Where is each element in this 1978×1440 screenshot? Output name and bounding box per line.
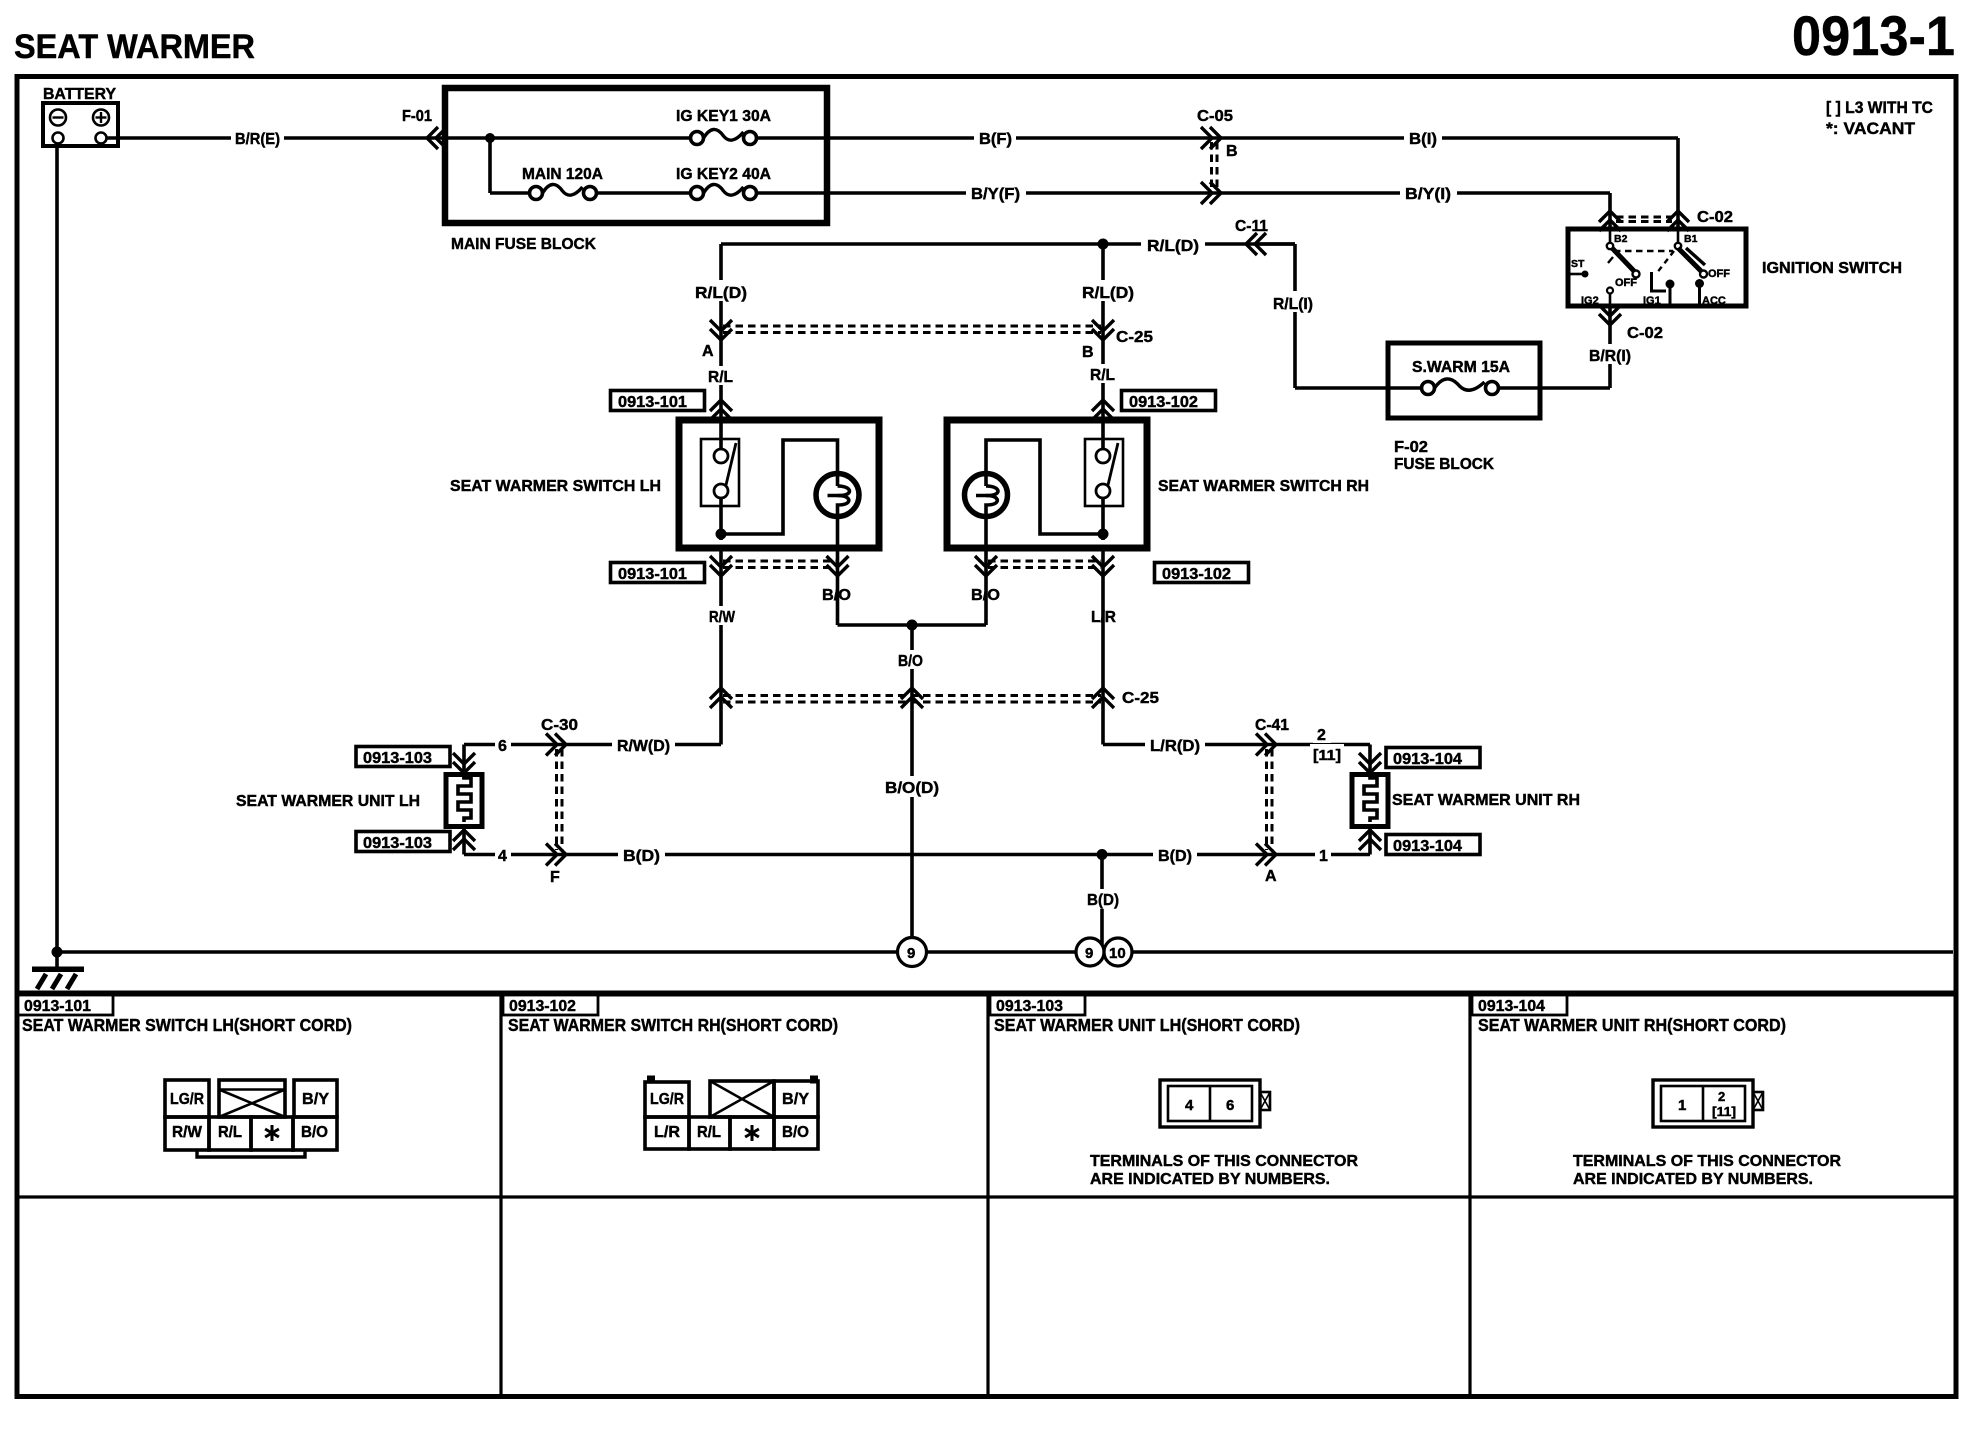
svg-text:R/W(D): R/W(D) <box>617 738 670 755</box>
main fuse block box <box>445 88 827 223</box>
svg-text:4: 4 <box>498 848 507 865</box>
label B(D) left <box>618 844 665 865</box>
svg-text:R/L: R/L <box>697 1124 721 1141</box>
svg-text:[ ] L3 WITH TC: [ ] L3 WITH TC <box>1826 98 1933 117</box>
label R/W(D) <box>612 734 675 755</box>
note terminals col3 <box>1090 1153 1358 1188</box>
label R/L(D) left <box>690 280 752 302</box>
svg-text:L/R(D): L/R(D) <box>1150 738 1200 755</box>
connector face unit RH <box>1653 1080 1763 1127</box>
connector C-02 label top <box>1697 209 1733 226</box>
wire R/L(D) horizontal <box>721 242 1295 246</box>
svg-text:B(F): B(F) <box>979 131 1012 148</box>
svg-text:0913-103: 0913-103 <box>363 835 432 852</box>
svg-text:A: A <box>1265 868 1277 885</box>
chevron below lamp RH <box>975 556 997 576</box>
svg-text:S.WARM 15A: S.WARM 15A <box>1412 359 1510 376</box>
connector C-25 lower chevron right <box>1092 688 1114 708</box>
svg-text:0913-104: 0913-104 <box>1393 838 1462 855</box>
svg-text:A: A <box>702 343 714 360</box>
svg-text:0913-103: 0913-103 <box>363 750 432 767</box>
label IGNITION SWITCH <box>1762 260 1902 277</box>
connector label box 0913-104 upper <box>1386 748 1480 769</box>
svg-text:B/Y(I): B/Y(I) <box>1405 186 1451 203</box>
ignition switch box <box>1568 229 1746 306</box>
table header box 0913-104 <box>1472 995 1567 1015</box>
table header box 0913-103 <box>990 995 1085 1015</box>
wire L/R below switch RH <box>1101 548 1105 745</box>
wire B/Y(F) to ignition switch <box>756 193 1610 230</box>
chevron above switch LH <box>710 400 732 420</box>
chevron below switch RH pin <box>1092 556 1114 576</box>
label B(F) <box>974 127 1016 148</box>
svg-text:R/L: R/L <box>1090 367 1115 384</box>
wire L/R(D) horizontal <box>1103 745 1370 777</box>
ignition terminal IG1 <box>1643 272 1675 307</box>
connector C-25 lower chevron left <box>710 688 732 708</box>
connector C-41 chevron bottom <box>1256 844 1276 866</box>
junction R/L(D) <box>1098 239 1109 250</box>
svg-text:LG/R: LG/R <box>170 1091 204 1108</box>
connector C-30 chevron top <box>546 734 566 756</box>
label B at C-05 <box>1226 143 1238 160</box>
svg-text:BATTERY: BATTERY <box>43 86 117 103</box>
svg-text:C-25: C-25 <box>1122 690 1159 707</box>
svg-text:OFF: OFF <box>1708 268 1730 280</box>
svg-text:4: 4 <box>1185 1097 1194 1114</box>
connector C-05 dashed line <box>1212 142 1218 189</box>
label R/L(I) <box>1268 291 1316 313</box>
label B/R(I) <box>1584 344 1636 365</box>
connector F-01 label <box>402 108 432 125</box>
svg-text:10: 10 <box>1109 945 1126 962</box>
label B/R(E) <box>231 126 284 148</box>
svg-text:[11]: [11] <box>1313 747 1341 764</box>
ignition dashed link B2-B1 <box>1614 250 1673 253</box>
svg-text:0913-101: 0913-101 <box>618 566 687 583</box>
svg-text:SEAT WARMER: SEAT WARMER <box>14 28 255 66</box>
svg-text:IG KEY1 30A: IG KEY1 30A <box>676 108 771 125</box>
connector C-25 lower dashed line <box>723 696 1101 703</box>
wire B(D) horizontal <box>464 853 1370 857</box>
svg-text:9: 9 <box>1085 945 1093 962</box>
svg-text:B: B <box>1082 344 1094 361</box>
connector 0913-101 dashed line below switch LH <box>723 561 836 568</box>
svg-text:B/O: B/O <box>301 1124 328 1141</box>
table header box 0913-101 <box>18 995 113 1015</box>
label B/O lamp RH <box>971 587 1000 604</box>
svg-text:SEAT WARMER SWITCH LH: SEAT WARMER SWITCH LH <box>450 478 661 495</box>
note VACANT <box>1826 119 1916 138</box>
svg-text:B(D): B(D) <box>1087 892 1119 909</box>
label B/Y(I) <box>1400 182 1457 203</box>
battery ground wire <box>55 143 59 952</box>
svg-text:R/L: R/L <box>708 369 733 386</box>
switch RH contact <box>1085 420 1123 540</box>
wire in fuse block bottom row <box>490 191 694 195</box>
ground circle 10 <box>1104 938 1132 966</box>
svg-text:R/L: R/L <box>218 1124 242 1141</box>
fuse IG KEY2 40A <box>691 184 757 199</box>
svg-text:B/O(D): B/O(D) <box>885 780 939 797</box>
connector C-41 chevron top <box>1256 734 1276 756</box>
svg-text:F-01: F-01 <box>402 108 432 125</box>
wire unit RH bottom stub <box>1368 827 1372 855</box>
note terminals col4 <box>1573 1153 1841 1188</box>
svg-text:C-30: C-30 <box>541 717 578 734</box>
column title unit RH <box>1478 1015 1786 1035</box>
connector C-25 upper label <box>1116 329 1153 346</box>
column title unit LH <box>994 1015 1300 1035</box>
connector C-30 dashed line <box>557 749 563 850</box>
pin label 4 <box>495 845 511 865</box>
svg-text:B/R(E): B/R(E) <box>235 131 280 148</box>
label B/O common <box>893 650 927 670</box>
svg-text:B/O: B/O <box>782 1124 809 1141</box>
ground bus wire <box>52 947 1954 958</box>
svg-text:C-25: C-25 <box>1116 329 1153 346</box>
svg-text:C-05: C-05 <box>1197 108 1233 125</box>
connector C-41 dashed line <box>1267 749 1273 850</box>
label SEAT WARMER SWITCH LH <box>450 478 661 495</box>
svg-text:0913-102: 0913-102 <box>1162 566 1231 583</box>
svg-text:0913-101: 0913-101 <box>24 998 91 1015</box>
fuse IG KEY1 30A <box>691 129 757 144</box>
svg-text:B/Y: B/Y <box>302 1091 329 1108</box>
connector C-25 upper chevron left <box>710 320 732 340</box>
svg-text:SEAT WARMER UNIT LH: SEAT WARMER UNIT LH <box>236 793 420 810</box>
label SEAT WARMER SWITCH RH <box>1158 478 1369 495</box>
battery label <box>43 86 117 103</box>
label B(D) right <box>1153 844 1197 865</box>
table top border <box>17 991 1956 997</box>
svg-text:B: B <box>1226 143 1238 160</box>
svg-text:IGNITION SWITCH: IGNITION SWITCH <box>1762 260 1902 277</box>
svg-text:B/R(I): B/R(I) <box>1589 348 1631 365</box>
label B upper <box>1082 344 1094 361</box>
connector C-02 label bottom <box>1627 325 1663 342</box>
connector C-11 chevron <box>1246 233 1266 255</box>
chevron into unit RH bottom <box>1359 830 1381 850</box>
connector label box 0913-102 lower <box>1155 563 1249 584</box>
svg-text:0913-104: 0913-104 <box>1478 998 1545 1015</box>
svg-text:SEAT WARMER SWITCH RH(SHORT CO: SEAT WARMER SWITCH RH(SHORT CORD) <box>508 1015 838 1035</box>
switch RH junction and link wire <box>986 440 1109 540</box>
svg-text:R/W: R/W <box>172 1124 203 1141</box>
column title switch LH <box>22 1015 352 1035</box>
label A at C-41 <box>1265 868 1277 885</box>
svg-text:2: 2 <box>1317 727 1326 744</box>
seat warmer unit RH <box>1352 774 1388 827</box>
label MAIN 120A <box>522 166 603 183</box>
ground symbol <box>32 952 84 989</box>
svg-text:IG KEY2 40A: IG KEY2 40A <box>676 166 771 183</box>
label SEAT WARMER UNIT RH <box>1392 792 1580 809</box>
chevron below switch LH pin <box>710 556 732 576</box>
chevron above switch RH <box>1092 400 1114 420</box>
pin label 6 <box>495 735 511 755</box>
svg-text:B/O: B/O <box>898 653 923 670</box>
label B(D) lower <box>1082 889 1124 909</box>
svg-text:R/L(I): R/L(I) <box>1273 296 1313 313</box>
label FUSE BLOCK <box>1394 456 1494 473</box>
svg-text:IG1: IG1 <box>1643 295 1661 307</box>
svg-text:0913-101: 0913-101 <box>618 394 687 411</box>
connector C-41 label <box>1255 717 1289 734</box>
svg-text:0913-103: 0913-103 <box>996 998 1063 1015</box>
svg-text:MAIN FUSE BLOCK: MAIN FUSE BLOCK <box>451 236 596 253</box>
svg-text:TERMINALS OF THIS CONNECTOR: TERMINALS OF THIS CONNECTOR <box>1573 1153 1841 1170</box>
connector C-30 chevron bottom <box>546 844 566 866</box>
wire unit LH bottom stub <box>462 827 466 855</box>
svg-text:FUSE BLOCK: FUSE BLOCK <box>1394 456 1494 473</box>
svg-text:SEAT WARMER UNIT RH(SHORT CORD: SEAT WARMER UNIT RH(SHORT CORD) <box>1478 1015 1786 1035</box>
label B(I) <box>1404 127 1442 148</box>
svg-text:C-41: C-41 <box>1255 717 1289 734</box>
title SEAT WARMER <box>14 28 255 66</box>
svg-text:B/Y: B/Y <box>782 1091 809 1108</box>
connector C-11 label <box>1235 218 1268 235</box>
label A upper <box>702 343 714 360</box>
label IG KEY1 30A <box>676 108 771 125</box>
wire R/L right vertical <box>1101 244 1105 420</box>
battery <box>43 103 118 146</box>
connector face unit LH <box>1160 1080 1270 1127</box>
wire B/O join <box>838 548 987 952</box>
connector C-02 chevron bottom <box>1599 305 1621 325</box>
column title switch RH <box>508 1015 838 1035</box>
table header box 0913-102 <box>503 995 598 1015</box>
label R/L right <box>1085 364 1119 384</box>
table column divider 1 <box>499 995 502 1396</box>
connector C-30 label <box>541 717 578 734</box>
fuse S.WARM 15A <box>1422 379 1547 395</box>
svg-text:B(D): B(D) <box>623 848 660 865</box>
svg-text:9: 9 <box>907 945 915 962</box>
label R/W <box>704 606 740 626</box>
ignition switch arm left <box>1608 248 1640 278</box>
svg-text:R/W: R/W <box>709 609 736 626</box>
ignition terminal B2 <box>1607 230 1628 249</box>
chevron below lamp LH <box>827 556 849 576</box>
svg-text:ACC: ACC <box>1702 295 1726 307</box>
svg-text:SEAT WARMER SWITCH LH(SHORT CO: SEAT WARMER SWITCH LH(SHORT CORD) <box>22 1015 352 1035</box>
ignition terminal B1 <box>1675 230 1698 249</box>
label B/O(D) <box>880 776 944 797</box>
svg-text:1: 1 <box>1678 1097 1686 1114</box>
svg-text:OFF: OFF <box>1615 277 1637 289</box>
label R/L(D) right <box>1077 280 1139 302</box>
wire B(F) to ignition switch <box>756 138 1678 230</box>
connector C-25 upper dashed line <box>723 326 1101 333</box>
ground circle 9 left <box>898 938 927 967</box>
connector C-25 upper chevron right <box>1092 320 1114 340</box>
fuse block F-02 box <box>1388 343 1540 418</box>
connector label box 0913-101 lower <box>611 563 705 584</box>
connector C-05 chevron bottom <box>1201 182 1221 204</box>
svg-text:6: 6 <box>498 738 507 755</box>
label S.WARM 15A <box>1412 359 1510 376</box>
pin label 2 <box>1313 727 1331 744</box>
ground circle 9 right <box>1076 938 1104 966</box>
svg-text:SEAT WARMER SWITCH RH: SEAT WARMER SWITCH RH <box>1158 478 1369 495</box>
connector F-01 chevron <box>427 127 447 149</box>
svg-text:SEAT WARMER UNIT LH(SHORT CORD: SEAT WARMER UNIT LH(SHORT CORD) <box>994 1015 1300 1035</box>
connector face switch RH <box>645 1076 818 1150</box>
svg-text:C-02: C-02 <box>1627 325 1663 342</box>
connector C-02 chevron left <box>1599 211 1621 231</box>
svg-text:R/L(D): R/L(D) <box>695 285 747 302</box>
label MAIN FUSE BLOCK <box>451 236 596 253</box>
junction in fuse block <box>485 133 495 193</box>
svg-text:B/Y(F): B/Y(F) <box>971 186 1020 203</box>
label F-02 <box>1394 439 1428 456</box>
indicator lamp RH <box>965 474 1008 549</box>
label B/O lamp LH <box>822 587 851 604</box>
svg-text:F-02: F-02 <box>1394 439 1428 456</box>
chevron into unit LH top <box>453 753 475 773</box>
svg-text:[11]: [11] <box>1712 1104 1736 1119</box>
wire R/L left vertical <box>719 244 723 420</box>
wire IG2 down to fuse block F-02 <box>1546 306 1610 388</box>
svg-text:F: F <box>550 869 560 886</box>
svg-text:LG/R: LG/R <box>650 1091 684 1108</box>
label L/R(D) <box>1145 734 1205 755</box>
connector C-25 lower label <box>1122 690 1159 707</box>
svg-text:R/L(D): R/L(D) <box>1147 238 1199 255</box>
label IG KEY2 40A <box>676 166 771 183</box>
svg-text:0913-1: 0913-1 <box>1792 4 1955 67</box>
wire R/L(I) from C-11 to fuse block <box>1258 244 1420 388</box>
ignition label OFF right <box>1708 268 1730 280</box>
table column divider 2 <box>986 995 989 1396</box>
svg-text:C-11: C-11 <box>1235 218 1268 235</box>
fuse MAIN 120A <box>530 184 597 199</box>
table column divider 3 <box>1468 995 1471 1396</box>
wire R/W below switch LH <box>719 548 723 745</box>
seat warmer unit LH <box>446 774 482 827</box>
svg-text:1: 1 <box>1319 848 1328 865</box>
connector 0913-102 dashed line below switch RH <box>988 561 1101 568</box>
pin label [11] <box>1310 744 1344 764</box>
svg-text:B(I): B(I) <box>1409 131 1437 148</box>
ignition terminal ACC <box>1695 279 1726 307</box>
svg-text:ST: ST <box>1571 258 1585 270</box>
svg-text:0913-104: 0913-104 <box>1393 751 1462 768</box>
ignition switch arm right <box>1656 248 1707 278</box>
svg-text:TERMINALS OF THIS CONNECTOR: TERMINALS OF THIS CONNECTOR <box>1090 1153 1358 1170</box>
switch LH junction and link wire <box>716 440 838 540</box>
svg-text:6: 6 <box>1226 1097 1234 1114</box>
connector C-25 lower chevron middle <box>901 688 923 708</box>
junction B(D) <box>1097 849 1108 945</box>
label B/Y(F) <box>966 182 1026 203</box>
connector label box 0913-103 lower <box>356 832 450 853</box>
chevron into unit RH top <box>1359 753 1381 773</box>
page number 0913-1 <box>1792 4 1955 67</box>
wire battery to main fuse block B/R(E) <box>106 136 694 140</box>
table row divider <box>17 1195 1956 1198</box>
connector label box 0913-101 upper <box>611 391 705 412</box>
indicator lamp LH <box>816 474 859 549</box>
chevron into unit LH bottom <box>453 830 475 850</box>
connector label box 0913-102 upper <box>1122 391 1216 412</box>
label SEAT WARMER UNIT LH <box>236 793 420 810</box>
svg-text:R/L(D): R/L(D) <box>1082 285 1134 302</box>
svg-text:0913-102: 0913-102 <box>1129 394 1198 411</box>
label L/R <box>1086 606 1120 626</box>
svg-text:B2: B2 <box>1614 233 1628 245</box>
svg-text:0913-102: 0913-102 <box>509 998 576 1015</box>
wire R/W(D) horizontal <box>464 745 721 780</box>
svg-text:L/R: L/R <box>654 1124 680 1141</box>
connector C-05 label <box>1197 108 1233 125</box>
seat warmer switch LH box <box>679 420 879 548</box>
svg-text:C-02: C-02 <box>1697 209 1733 226</box>
svg-text:MAIN 120A: MAIN 120A <box>522 166 603 183</box>
connector C-05 chevron top <box>1201 127 1221 149</box>
pin label 1 <box>1315 845 1331 865</box>
ignition terminal ST <box>1570 258 1589 278</box>
note L3 WITH TC <box>1826 98 1933 117</box>
ignition label OFF left <box>1615 277 1637 289</box>
label R/L left <box>703 366 737 386</box>
svg-text:B(D): B(D) <box>1158 848 1192 865</box>
connector label box 0913-103 upper <box>356 747 450 768</box>
svg-text:ARE INDICATED BY NUMBERS.: ARE INDICATED BY NUMBERS. <box>1090 1171 1330 1188</box>
svg-text:SEAT WARMER UNIT RH: SEAT WARMER UNIT RH <box>1392 792 1580 809</box>
connector face switch LH <box>165 1080 337 1157</box>
label R/L(D) on horizontal <box>1141 233 1205 255</box>
svg-text:B1: B1 <box>1684 233 1698 245</box>
connector C-02 dashed line top <box>1616 217 1672 222</box>
svg-text:2: 2 <box>1718 1089 1725 1104</box>
seat warmer switch RH box <box>947 420 1147 548</box>
switch LH contact <box>701 420 739 540</box>
ignition terminal IG2 <box>1581 288 1613 311</box>
label F at C-30 <box>550 869 560 886</box>
svg-text:*: VACANT: *: VACANT <box>1826 119 1916 138</box>
connector C-02 chevron right <box>1667 211 1689 231</box>
svg-text:ARE INDICATED BY NUMBERS.: ARE INDICATED BY NUMBERS. <box>1573 1171 1813 1188</box>
connector label box 0913-104 lower <box>1386 835 1480 856</box>
svg-text:IG2: IG2 <box>1581 295 1599 307</box>
